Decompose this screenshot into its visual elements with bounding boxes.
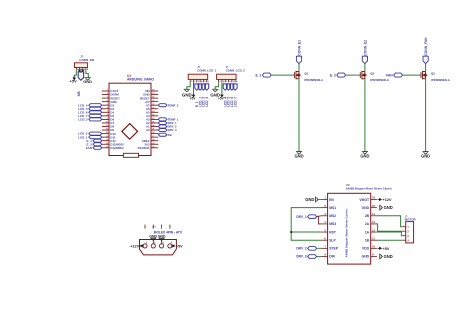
global label LCD_7 [78,114,102,118]
svg-text:2A: 2A [365,222,370,226]
global label LCD_4 [78,103,102,107]
svg-text:2: 2 [107,93,108,95]
svg-text:13: 13 [106,132,108,134]
svg-text:SLP: SLP [329,238,336,242]
connector J? MOTOR [402,215,416,243]
svg-text:GND: GND [294,154,303,159]
svg-text:+12V: +12V [383,198,392,202]
power +12V (U2 VMOT) [378,198,382,200]
svg-text:GND: GND [83,79,92,84]
svg-text:+5V: +5V [190,97,197,101]
svg-text:15: 15 [372,204,376,208]
svg-text:CONN_E2: CONN_E2 [363,40,367,56]
global label DRV_2 [158,125,177,129]
IC U1 ARDUINO_NANO [102,74,159,156]
svg-text:16: 16 [372,196,376,200]
svg-text:LCD_3: LCD_3 [205,97,209,107]
ground GND (molex pin3) [159,238,165,240]
svg-text:U2: U2 [346,183,350,187]
connector J? CONN_KB [74,55,95,71]
ground GND (Q3 source) [423,152,429,154]
svg-text:ARDUINO_NANO: ARDUINO_NANO [127,78,154,82]
ground GND (CONN_LCD_1) [184,89,190,91]
ground GND (Q1 source) [296,152,302,154]
svg-text:E_1: E_1 [256,73,262,77]
transistor Q1 IPD068N03LA (N-MOSFET) [294,71,324,82]
svg-text:VMOT: VMOT [359,198,369,202]
svg-text:14: 14 [372,212,376,216]
svg-text:GND: GND [149,234,157,238]
global label LCD_1 [78,135,102,139]
svg-text:28: 28 [152,139,154,141]
ground GND (U2 EN) [316,197,318,203]
svg-text:DRV_3: DRV_3 [168,128,177,132]
svg-text:FAN: FAN [386,73,393,77]
transistor Q2 IPD068N03LA (N-MOSFET) [360,71,390,82]
svg-text:LCD_3: LCD_3 [78,118,88,122]
wire DRV_1 to MS2 [317,215,322,218]
svg-text:FAN: FAN [86,146,92,150]
wire molex pin3 to GND [161,239,163,244]
wire 1B to motor pin4 [377,239,402,241]
global label LCD_5 (pointing down) [227,84,231,107]
svg-text:RST: RST [329,230,336,234]
global label TEMP_2 [158,103,179,107]
svg-text:5: 5 [107,104,108,106]
global label DRV_1 [158,121,177,125]
svg-text:MS3: MS3 [329,222,336,226]
wire 1A to motor pin3 [377,232,402,236]
svg-text:CONN_LCD_1: CONN_LCD_1 [197,69,217,73]
global label TEMP_1 [158,118,179,122]
global label DRV_3 [158,128,177,132]
power +5V (molex) [171,245,175,247]
global label E_1 (gate of Q1) [256,73,272,77]
svg-text:11: 11 [372,236,375,240]
svg-text:12: 12 [372,228,376,232]
connector J? CONN_LCD_1 [188,66,217,83]
svg-text:16: 16 [106,143,108,145]
svg-text:CONN_E1: CONN_E1 [297,40,301,56]
global label E_1 (pointing down) [195,84,199,107]
svg-text:8: 8 [107,114,108,116]
global label LCD_2 (pointing down) [201,84,205,107]
global label LCD_3 (pointing down) [205,84,209,107]
svg-text:Q2: Q2 [370,71,374,75]
svg-text:IPD068N03LA: IPD068N03LA [370,78,390,82]
svg-text:20: 20 [152,111,154,113]
transistor Q3 IPD068N03LA (N-MOSFET) [421,71,451,82]
svg-text:6: 6 [107,107,108,109]
U1 USB connector box [123,153,138,157]
U1 logo diamond [122,124,138,140]
wire RST branch [291,231,321,233]
ground GND (molex pin2) [150,238,156,240]
svg-text:DRV_3: DRV_3 [296,255,306,259]
svg-text:25: 25 [152,129,154,131]
svg-text:CONN_LCD_2: CONN_LCD_2 [226,69,246,73]
wire CONN_LCD_2 pin2 to +5V [221,82,223,93]
wire source of Q2 to GND [364,78,366,151]
svg-text:GND: GND [360,154,369,159]
svg-text:27: 27 [152,136,154,138]
ground GND (U2 pin9) [380,254,383,260]
power +5V (CONN_LCD_2) [221,93,223,97]
svg-text:CONN_FAN: CONN_FAN [424,37,428,56]
svg-text:11: 11 [106,125,108,127]
global label LCD_1 (pointing down) [198,84,202,107]
svg-text:+12V: +12V [130,244,139,248]
svg-text:Q1: Q1 [304,71,308,75]
svg-text:A4988 Stepper Motor Driver Car: A4988 Stepper Motor Driver Carrier [345,208,349,257]
wire CONN_LCD_1 pin1 to GND [187,82,190,89]
svg-text:IPD068N03LA: IPD068N03LA [304,78,324,82]
global label LCD_7 (pointing down) [233,84,237,107]
svg-text:IPD068N03LA: IPD068N03LA [431,78,451,82]
global label E_1 [87,139,102,143]
global label CONN_FAN (vertical, above Q3) [423,37,428,64]
svg-text:MOTOR: MOTOR [405,218,417,222]
connector P? MOLEX 4PIN - ATX [140,225,183,255]
ground GND (U2 pin15) [380,205,383,211]
svg-text:15: 15 [152,93,154,95]
wire 2A to motor pin2 [377,224,402,231]
wire CONN_KB pin4 to GND [86,70,88,78]
global label DRV_3 (U2) [296,255,316,259]
svg-text:D13/SCK: D13/SCK [138,146,151,150]
svg-text:GND: GND [421,154,430,159]
svg-text:30: 30 [152,146,154,148]
svg-text:MS2: MS2 [329,214,336,218]
power +5V (CONN_LCD_1) [192,93,194,97]
svg-text:DRV_2: DRV_2 [296,247,306,251]
svg-text:D12/MISO: D12/MISO [110,146,124,150]
global label DRV_1 (U2 MS2/MS3) [296,215,316,219]
global label E_2 [87,142,102,146]
global label KB [158,133,171,137]
svg-text:MS1: MS1 [329,206,336,210]
global label DRV_2 (U2) [296,247,316,251]
svg-text:GND: GND [384,205,393,210]
wire drain of Q2 to CONN_E2 [364,64,366,72]
svg-text:10: 10 [106,122,108,124]
svg-text:22: 22 [152,118,154,120]
svg-text:TEMP_2: TEMP_2 [168,103,179,107]
wire molex pin1 to +12V [140,245,143,247]
wire U2 EN to GND [318,199,322,201]
wire CONN_LCD_1 pin2 to +5V [193,82,195,93]
global label FAN (gate of Q3) [386,73,402,77]
svg-text:KB: KB [77,91,81,97]
no-connect X on CONN_KB pin 2 [78,69,81,72]
svg-text:12: 12 [106,129,108,131]
svg-text:29: 29 [152,143,154,145]
wire MS2-MS3 tie [318,216,321,224]
svg-text:CONN_KB: CONN_KB [79,58,95,62]
global label LCD_2 [78,132,102,136]
svg-text:GND: GND [362,255,370,259]
svg-text:+5V: +5V [176,244,183,248]
ground GND (CONN_LCD_2) [212,89,218,91]
svg-text:15: 15 [106,139,108,141]
wire source of Q3 to GND [425,78,427,151]
wire drain of Q3 to CONN_FAN [425,64,427,72]
svg-text:18: 18 [152,104,154,106]
svg-text:A4988 Stepper Motor Driver Car: A4988 Stepper Motor Driver Carrier [346,187,393,191]
svg-text:19: 19 [152,107,154,109]
svg-text:GND: GND [158,234,166,238]
global label KB (pointing down from CONN_KB) [77,72,84,97]
global label LCD_5 [78,107,102,111]
global label LCD_4 (pointing down) [223,84,227,107]
junction at RST/vertical [290,231,292,233]
svg-text:STEP: STEP [329,247,339,251]
svg-text:21: 21 [152,114,154,116]
svg-text:+5V: +5V [383,247,390,251]
global label FAN [86,146,102,150]
svg-text:1A: 1A [365,230,370,234]
wire molex pin4 to +5V [172,245,175,247]
wire CONN_LCD_2 pin1 to GND [215,82,218,89]
wire CONN_KB pin1 to +5V [74,70,76,77]
svg-text:+5V: +5V [70,79,77,84]
svg-text:16: 16 [152,97,154,99]
svg-text:1B: 1B [365,238,370,242]
wire molex pin2 to GND [152,239,154,244]
ground GND (Q2 source) [362,152,368,154]
svg-text:E_2: E_2 [330,73,336,77]
global label LCD_6 [78,110,102,114]
global label LCD_3 [78,118,102,122]
no-connect X on CONN_KB pin 3 [81,69,84,72]
svg-text:3: 3 [107,97,108,99]
power +5V (CONN_KB) [73,76,75,80]
svg-text:9: 9 [107,118,108,120]
wire source of Q1 to GND [298,78,300,151]
svg-text:23: 23 [152,122,154,124]
ground GND (CONN_KB) [85,78,91,80]
svg-text:GND: GND [362,206,370,210]
wire drain of Q1 to CONN_E1 [298,64,300,72]
svg-text:2B: 2B [365,214,370,218]
svg-text:A0: A0 [146,128,150,132]
svg-text:13: 13 [372,220,376,224]
global label CONN_E1 (vertical, above Q1) [296,40,301,64]
svg-text:GND: GND [384,254,393,259]
svg-text:KB: KB [168,133,172,137]
IC U2 A4988 Stepper Motor Driver Carrier [322,183,393,264]
svg-text:26: 26 [152,132,154,134]
svg-text:17: 17 [106,146,108,148]
power +12V (molex) [140,245,144,247]
global label E_2 (gate of Q2) [330,73,346,77]
wire gate of Q1 [271,74,294,76]
svg-text:EN: EN [329,198,334,202]
wire gate of Q3 [403,74,422,76]
wire 2B to motor pin1 [377,216,402,227]
svg-text:DRV_1: DRV_1 [296,215,306,219]
wire DRV_2 to pin [317,247,322,249]
svg-text:VDD: VDD [362,247,370,251]
global label LCD_6 (pointing down) [230,84,234,107]
global label CONN_E2 (vertical, above Q2) [362,40,367,64]
power +5V (U2 VDD) [378,247,382,249]
svg-text:DIR: DIR [329,255,335,259]
wire DRV_3 to pin [317,255,322,257]
svg-text:GND: GND [305,197,314,202]
svg-text:17: 17 [152,100,154,102]
connector J? CONN_LCD_2 [217,66,246,83]
wire gate of Q2 [346,74,361,76]
svg-text:LCD_7: LCD_7 [233,97,237,107]
svg-text:7: 7 [107,111,108,113]
svg-text:1: 1 [107,90,108,92]
wire MS1-RST-SLP tie [291,208,321,241]
svg-text:Q3: Q3 [431,71,435,75]
svg-text:10: 10 [372,245,376,249]
